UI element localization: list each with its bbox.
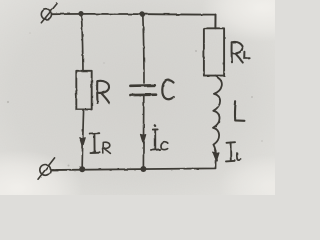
- label I_C (with dot): [151, 126, 168, 150]
- wire top rail: [52, 13, 216, 16]
- label R (resistor value): [97, 81, 109, 103]
- node bottom of C branch: [140, 166, 146, 172]
- inductor L coil: [213, 76, 222, 151]
- resistor R: [76, 71, 91, 110]
- wire R branch upper: [81, 14, 83, 71]
- capacitor C top plate: [130, 84, 154, 87]
- label I_R: [90, 133, 111, 153]
- wire bottom rail: [51, 161, 216, 171]
- light scan patches: [0, 150, 83, 226]
- wire right branch top corner: [214, 15, 216, 29]
- terminal T2 (bottom-left input): [38, 158, 55, 179]
- wire inductor to bottom rail: [215, 151, 218, 161]
- capacitor C bottom plate: [130, 93, 156, 96]
- resistor RL: [204, 28, 224, 75]
- arrow I_L head: [213, 153, 219, 161]
- terminal T1 (top-left input): [41, 4, 57, 23]
- node top of R branch: [78, 11, 83, 16]
- arrow I_C head: [141, 134, 146, 143]
- arrow I_R head: [80, 138, 85, 147]
- label RL (resistor value): [232, 42, 250, 63]
- label L (inductor value): [235, 102, 244, 121]
- wire R branch lower: [82, 110, 83, 168]
- paper background: [0, 0, 275, 195]
- label I_L: [226, 142, 241, 161]
- node top of C branch: [140, 12, 145, 17]
- wire C branch lower: [142, 96, 144, 169]
- faint scan speckles: [7, 32, 263, 166]
- label C (capacitor value): [162, 80, 174, 99]
- node bottom of R branch: [79, 166, 85, 172]
- wire C branch upper: [143, 15, 144, 83]
